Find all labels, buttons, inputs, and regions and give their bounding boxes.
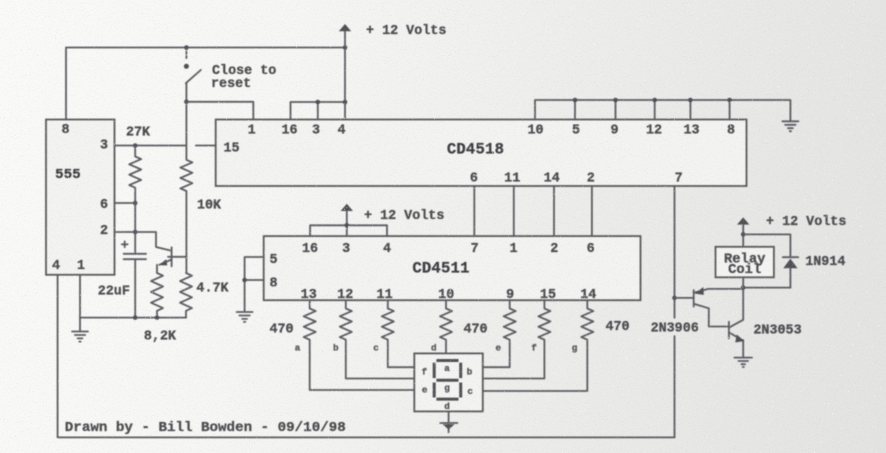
wire CD4518 pin6 to CD4511 pin7 [473,186,475,236]
power +12 Volts symbol top [339,24,447,48]
resistor R11 470 segment g [483,300,594,391]
wire +12V branch to diode [743,234,790,257]
resistor R1 27K [115,126,187,204]
wire bracket CD4518 pins 16 3 4 [291,100,348,120]
wire CD4518 pin14 to CD4511 pin2 [553,186,555,236]
CD4518 pin labels bottom row [470,172,683,187]
wire pin6 junction down to pin 2 node [134,203,136,232]
resistor R10 470 segment f [483,300,551,378]
transistor Q1 [115,232,187,273]
node junction top rail at +12V [343,45,348,50]
ground below 555 [72,318,88,342]
IC U2 CD4518 box [216,120,747,187]
IC U3 CD4511 box [264,236,641,300]
wire 555 pin 6 stub [115,201,138,206]
display segment letters [422,363,474,412]
power +12 Volts symbol right [737,215,846,247]
wire 555 pin1 to ground rail [80,275,186,320]
node junction 2N3906 base on pin7 line [672,296,677,301]
wire CD4511 pins 5 8 to ground [242,257,263,311]
text drawn by [65,420,346,436]
CD4511 pin labels top row [302,242,595,257]
pin 1 label [77,259,85,274]
value label 470 middle [463,322,487,337]
pin 3 label [100,138,108,153]
wire CD4518 pin7 feedback down to bottom rail [674,186,676,437]
resistor R8 470 segment d [431,300,452,353]
pin 6 label [100,198,108,213]
wire CD4518 pin11 to CD4511 pin1 [513,186,515,236]
resistor R9 470 segment e [483,300,516,367]
wire 555 pin4 down to bottom rail [58,275,675,438]
ground below CD4511 pins 5 8 [237,312,253,322]
pin 2 label [100,224,108,239]
wire +12V down to CD4518 pin 4 [344,48,346,120]
ground below display arrow style [440,411,457,432]
resistor R5 470 segment a [295,300,415,390]
switch S1 close to reset [184,48,276,102]
display U4 seven segment box [414,353,483,411]
ground below 2N3053 emitter [734,358,752,367]
display segments digit 8 [434,361,461,400]
wire diode bottom to relay bottom junction [743,287,790,289]
resistor R4 4.7K [180,273,230,318]
node junction above relay coil [741,232,746,237]
op-amp U1 555 timer box [46,120,115,275]
wire CD4518 pin 15 stub [196,145,216,147]
CD4511 pin 5 label [269,253,277,268]
wire CD4518 pin2 to CD4511 pin6 [591,186,593,236]
wire switch to CD4518 pin 1 [186,102,253,120]
resistor R3 8.2K [144,273,177,344]
value label 470 left [269,322,293,337]
transistor Q3 2N3053 [729,288,802,357]
wire relay coil bottom [742,277,744,287]
pin 8 label [61,123,69,138]
resistor R2 10K [180,102,222,273]
wire 555 pin8 to +12V rail [66,48,345,120]
wire bracket CD4511 pins 16 3 4 [310,223,387,236]
wire bracket CD4518 pins 10 5 9 12 13 8 to ground [535,98,790,121]
node junction top rail at switch [184,45,189,50]
node junction switch bottom [184,100,189,105]
CD4518 pin 15 label [223,141,239,156]
pin 4 label [52,259,60,274]
CD4518 pin labels top row [248,124,735,139]
CD4511 pin 8 label [269,277,277,292]
capacitor C1 22uF [98,232,146,318]
power +12 Volts symbol middle [341,204,445,226]
node pin 2 junction [133,230,138,235]
diode D1 1N914 [783,255,846,287]
node junction below relay coil [741,285,746,290]
CD4511 pin labels bottom row [301,288,597,303]
resistor R7 470 segment c [373,300,414,367]
resistor R6 470 segment b [333,300,414,378]
ground right of CD4518 [782,121,798,131]
relay coil box [716,247,774,278]
transistor Q2 2N3906 [651,287,744,336]
value label 470 right [605,320,629,335]
